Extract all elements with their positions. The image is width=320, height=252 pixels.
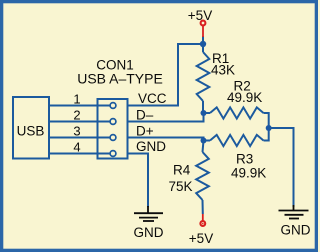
svg-text:R4: R4 — [173, 163, 191, 178]
pin 4 circle — [110, 151, 116, 157]
wire +5V red stub top — [202, 36, 204, 45]
pin 1 circle — [110, 103, 116, 109]
node J1 top rail — [200, 41, 206, 47]
svg-text:75K: 75K — [169, 179, 193, 194]
node J3 — [201, 138, 207, 144]
wire D- to node — [128, 113, 204, 122]
ground right — [279, 205, 309, 219]
resistor R3 — [204, 140, 211, 142]
svg-text:49.9K: 49.9K — [231, 166, 266, 181]
wire GND pin to left ground — [128, 154, 148, 208]
wire +5V red stub bottom — [202, 214, 204, 221]
wire J4 to right ground — [269, 128, 294, 207]
resistor R1 — [202, 44, 204, 52]
svg-text:VCC: VCC — [138, 91, 167, 106]
connector CON1 box — [98, 99, 128, 159]
USB box — [13, 97, 49, 159]
pin 2 circle — [110, 119, 116, 125]
svg-text:USB A–TYPE: USB A–TYPE — [77, 71, 163, 87]
+5V terminal bottom — [200, 221, 205, 226]
resistor R4 — [203, 141, 204, 153]
wire VCC to riser — [128, 44, 203, 106]
wire D+ to node — [128, 138, 204, 141]
resistor R2 — [204, 112, 211, 114]
svg-text:D+: D+ — [136, 124, 154, 139]
svg-text:1: 1 — [73, 92, 80, 107]
svg-text:2: 2 — [73, 108, 80, 123]
wire pin1 — [49, 105, 111, 107]
svg-text:43K: 43K — [211, 63, 235, 78]
node J2 — [201, 110, 207, 116]
wire pin3 — [49, 137, 111, 139]
svg-text:4: 4 — [73, 140, 80, 155]
wire pin2 — [49, 121, 111, 123]
svg-text:3: 3 — [73, 124, 80, 139]
pin 3 circle — [110, 135, 116, 141]
svg-text:GND: GND — [134, 225, 164, 240]
+5V terminal top — [201, 21, 206, 26]
svg-text:USB: USB — [17, 124, 45, 139]
svg-text:+5V: +5V — [189, 231, 213, 246]
node J4 — [266, 125, 272, 131]
ground left — [134, 206, 163, 221]
wire pin4 — [49, 153, 111, 155]
svg-text:D–: D– — [136, 108, 154, 123]
svg-text:GND: GND — [281, 223, 311, 238]
svg-text:49.9K: 49.9K — [227, 90, 262, 105]
svg-text:+5V: +5V — [188, 8, 212, 23]
svg-text:GND: GND — [136, 139, 166, 154]
svg-text:R3: R3 — [236, 152, 253, 167]
